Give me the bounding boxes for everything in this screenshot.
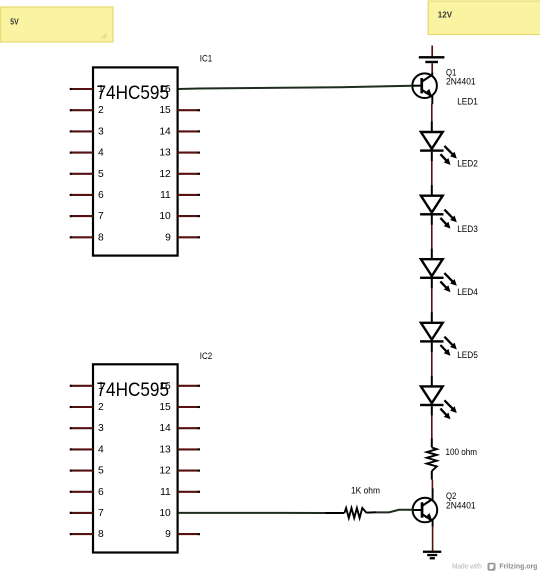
note 5V bbox=[1, 7, 113, 42]
wire LED5 cathode to 100 ohm resistor bbox=[431, 415, 433, 439]
resistor 100 ohm bbox=[427, 439, 437, 480]
IC1 left pin stubs (pins 1-8) bbox=[70, 89, 93, 237]
LED LED1 bbox=[420, 121, 457, 164]
IC1 pin numbers bbox=[98, 84, 171, 243]
power symbol +12V bbox=[419, 46, 445, 64]
transistor Q1 2N4401 (NPN) bbox=[412, 73, 437, 105]
svg-text:6: 6 bbox=[98, 190, 104, 201]
svg-text:3: 3 bbox=[98, 126, 104, 137]
LED LED5 bbox=[420, 376, 457, 420]
IC2 pin numbers bbox=[98, 381, 171, 540]
wire LED4 cathode to LED5 anode bbox=[431, 352, 433, 376]
svg-text:14: 14 bbox=[159, 126, 171, 137]
svg-text:5: 5 bbox=[98, 466, 104, 477]
svg-text:7: 7 bbox=[98, 508, 104, 519]
svg-text:14: 14 bbox=[159, 423, 171, 434]
wire Q1 emitter to LED1 anode bbox=[431, 104, 433, 122]
LED LED2 bbox=[420, 185, 457, 229]
LED LED4 bbox=[420, 312, 457, 356]
svg-text:12V: 12V bbox=[438, 9, 453, 19]
svg-text:Fritzing.org: Fritzing.org bbox=[499, 561, 537, 570]
svg-text:6: 6 bbox=[98, 487, 104, 498]
wire 1K resistor to Q2 base (green) bbox=[377, 510, 413, 513]
svg-text:12: 12 bbox=[159, 169, 171, 180]
svg-text:9: 9 bbox=[165, 232, 171, 243]
svg-text:2N4401: 2N4401 bbox=[446, 500, 476, 510]
svg-text:5: 5 bbox=[98, 169, 104, 180]
svg-text:7: 7 bbox=[98, 211, 104, 222]
svg-text:IC2: IC2 bbox=[200, 351, 212, 361]
svg-text:4: 4 bbox=[98, 148, 104, 159]
svg-text:IC1: IC1 bbox=[200, 54, 212, 64]
wire IC2 pin 10 to 1K resistor (green) bbox=[178, 512, 325, 514]
svg-text:8: 8 bbox=[98, 232, 104, 243]
LED LED3 bbox=[420, 249, 457, 293]
svg-text:10: 10 bbox=[159, 508, 171, 519]
svg-text:15: 15 bbox=[159, 105, 171, 116]
svg-text:LED1: LED1 bbox=[457, 97, 478, 107]
svg-text:13: 13 bbox=[159, 148, 171, 159]
svg-text:Made with: Made with bbox=[452, 561, 482, 570]
IC IC1 74HC595 box bbox=[93, 67, 178, 255]
svg-text:13: 13 bbox=[159, 444, 171, 455]
svg-text:74HC595: 74HC595 bbox=[97, 82, 170, 104]
svg-text:LED5: LED5 bbox=[457, 350, 478, 360]
note 12V bbox=[428, 1, 540, 35]
IC2 right pin stubs (pins 16-9) bbox=[178, 386, 200, 534]
transistor Q2 2N4401 (NPN) bbox=[413, 488, 438, 526]
svg-text:15: 15 bbox=[159, 402, 171, 413]
wire Q2 emitter to ground bbox=[432, 526, 434, 551]
wire 100 ohm resistor to Q2 collector bbox=[431, 480, 433, 489]
footer Made with Fritzing.org bbox=[452, 561, 538, 570]
ground bbox=[423, 551, 441, 560]
wire IC1 pin 16 to Q1 base (green) bbox=[178, 86, 412, 89]
resistor 1K ohm bbox=[326, 508, 377, 518]
svg-text:10: 10 bbox=[159, 211, 171, 222]
svg-text:100 ohm: 100 ohm bbox=[446, 447, 478, 458]
IC IC2 74HC595 box bbox=[93, 364, 178, 552]
wire LED3 cathode to LED4 anode bbox=[431, 288, 433, 312]
svg-text:4: 4 bbox=[98, 444, 104, 455]
wire LED1 cathode to LED2 anode bbox=[431, 161, 433, 185]
wire 12V power to Q1 collector bbox=[431, 63, 433, 73]
svg-text:5V: 5V bbox=[10, 16, 19, 26]
svg-text:11: 11 bbox=[160, 487, 171, 498]
svg-text:1K ohm: 1K ohm bbox=[351, 486, 380, 497]
svg-text:3: 3 bbox=[98, 423, 104, 434]
svg-text:74HC595: 74HC595 bbox=[97, 379, 170, 401]
IC2 left pin stubs (pins 1-8) bbox=[70, 386, 93, 534]
svg-text:9: 9 bbox=[165, 529, 171, 540]
svg-text:8: 8 bbox=[98, 529, 104, 540]
svg-text:LED3: LED3 bbox=[457, 224, 478, 234]
wire LED2 cathode to LED3 anode bbox=[431, 225, 433, 249]
svg-text:2N4401: 2N4401 bbox=[446, 77, 476, 87]
svg-text:11: 11 bbox=[160, 190, 171, 201]
svg-text:12: 12 bbox=[159, 466, 171, 477]
svg-text:LED2: LED2 bbox=[457, 158, 478, 168]
svg-text:2: 2 bbox=[98, 105, 104, 116]
svg-text:LED4: LED4 bbox=[457, 287, 478, 297]
IC1 right pin stubs (pins 16-9) bbox=[178, 110, 200, 237]
svg-text:2: 2 bbox=[98, 402, 104, 413]
